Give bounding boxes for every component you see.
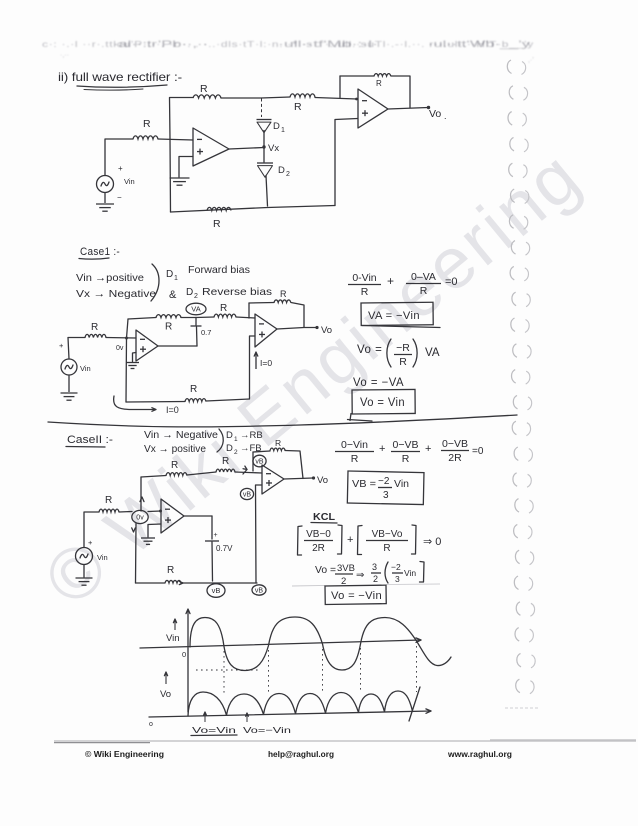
svg-text:+: + xyxy=(214,532,218,539)
svg-text:D: D xyxy=(226,430,233,441)
svg-text:·al··:tr’Pb··,··: ·al··:tr’Pb··,·· xyxy=(113,39,208,49)
resistor R (input, circuit 1) xyxy=(133,118,158,139)
node Vo (case 1) xyxy=(315,325,332,336)
source Vin (circuit 1) xyxy=(97,164,135,202)
op-amp U1 (case 2) xyxy=(161,499,184,533)
wire node to U1 inverting (case 2) xyxy=(148,510,162,513)
wire U2 output xyxy=(388,108,428,110)
svg-text:+: + xyxy=(88,538,93,547)
wire U2 output (case 1) xyxy=(277,328,316,330)
svg-text:3: 3 xyxy=(372,562,377,572)
svg-text:−: − xyxy=(117,193,122,202)
wire feedback right down to output (case 1) xyxy=(291,303,304,328)
wire U2 feedback top (case 1) xyxy=(249,302,274,305)
svg-text:2R: 2R xyxy=(312,543,325,554)
svg-text:−2: −2 xyxy=(391,562,401,572)
svg-text:→RB: →RB xyxy=(240,430,263,441)
wire input resistor to inverting node xyxy=(158,139,193,140)
resistor R (input, case 2) xyxy=(99,495,119,512)
svg-text:vB: vB xyxy=(255,588,264,595)
equation boxed VA = -Vin xyxy=(361,302,440,327)
wire top feedback left (case 2) xyxy=(141,476,166,478)
equation [VB-0/2R] + [VB-Vo/R] = 0 xyxy=(298,525,442,555)
source Vin (case 2) xyxy=(76,538,108,565)
svg-text:R: R xyxy=(376,79,382,88)
current annotation I=0 (bottom hook, case 1) xyxy=(114,396,179,415)
equation boxed VB = -2/3 Vin xyxy=(347,471,424,505)
resistor R (feedback U2, case 1) xyxy=(274,289,291,303)
svg-text:Vin: Vin xyxy=(166,633,180,644)
wire source to input resistor (case 1) xyxy=(68,338,85,360)
wire U2 feedback top (case 2) xyxy=(253,451,270,452)
ground (U1 + input, case 2) xyxy=(141,524,161,544)
node vB (top, case 2) xyxy=(253,455,266,467)
resistor R (feedback U1, case 2) xyxy=(166,460,187,476)
waveform vertical axis xyxy=(186,609,190,712)
svg-text:R: R xyxy=(275,438,281,448)
svg-text:3: 3 xyxy=(395,574,400,584)
svg-text:=0: =0 xyxy=(472,446,484,457)
svg-text:−2: −2 xyxy=(378,476,390,487)
equation boxed Vo = Vin xyxy=(348,389,416,421)
wire U2 feedback right down to output xyxy=(391,76,410,108)
node vB (mid, on + vertical, case 2) xyxy=(240,488,253,499)
svg-text:0-Vin: 0-Vin xyxy=(352,272,376,284)
label D1 forward bias xyxy=(166,264,250,282)
wire bottom rail (case 2) xyxy=(136,582,258,584)
resistor R (series to U2, case 2) xyxy=(216,456,235,472)
svg-text:,·’: ,·’ xyxy=(528,57,534,64)
label Vo=-Vin below axis xyxy=(243,713,291,735)
svg-text:R: R xyxy=(351,453,359,465)
svg-text:Vx: Vx xyxy=(268,143,279,154)
wire bottom rail (case 1) xyxy=(126,399,250,402)
wire left vertical to bottom rail with down arrow (case 2) xyxy=(132,524,136,584)
wire bottom rail to U2 non-inverting input xyxy=(335,119,358,206)
svg-text:R: R xyxy=(222,456,229,467)
svg-text:0−Vin: 0−Vin xyxy=(341,439,368,451)
svg-text:0.7V: 0.7V xyxy=(216,544,233,553)
svg-text:Vin: Vin xyxy=(404,568,416,578)
svg-text:D: D xyxy=(273,121,280,132)
svg-text:VB−Vo: VB−Vo xyxy=(372,529,403,540)
svg-text:0−VB: 0−VB xyxy=(442,438,468,450)
label Case1 heading xyxy=(79,246,120,259)
ground (U1 non-inverting input) xyxy=(170,157,194,186)
wire top feedback (case 1) xyxy=(128,318,156,320)
svg-text:R: R xyxy=(165,322,172,333)
op-amp U2 (case 1) xyxy=(255,314,277,347)
svg-text:www.raghul.org: www.raghul.org xyxy=(447,749,512,759)
svg-text:Reverse bias: Reverse bias xyxy=(202,286,272,298)
diode drop 0.7V element D2 branch (case 2) xyxy=(205,516,233,581)
svg-text:→FB: →FB xyxy=(240,443,262,454)
resistor R (bottom rail, case 2) xyxy=(165,565,183,585)
label Vo=Vin below axis xyxy=(191,712,237,736)
current annotation I=0 (U2 input, case 1) xyxy=(254,352,272,369)
wire feedback resistor to node VA xyxy=(181,317,196,319)
wire right vertical to U2 non-inverting (case 2) xyxy=(256,485,263,583)
svg-text:R: R xyxy=(280,289,287,299)
svg-text:+: + xyxy=(118,164,123,173)
wire U2 output (case 2) xyxy=(284,478,313,479)
node Vo (case 2) xyxy=(312,475,328,486)
wire top feedback xyxy=(170,97,193,99)
svg-text:vB: vB xyxy=(212,586,221,595)
svg-text:0v: 0v xyxy=(136,515,144,522)
annotation brace xyxy=(151,264,159,301)
svg-text:−R: −R xyxy=(396,342,410,354)
title: full wave rectifier xyxy=(58,70,182,90)
equation Vo = (-R/R) VA xyxy=(357,339,440,368)
wire inverting node vertical (feedback tie) xyxy=(170,98,171,213)
svg-text:+: + xyxy=(59,341,64,350)
svg-text:2R: 2R xyxy=(448,452,462,464)
diode D1 xyxy=(257,99,286,135)
svg-text:Vx → Negative: Vx → Negative xyxy=(76,288,156,300)
svg-text:⇒ 0: ⇒ 0 xyxy=(423,536,441,548)
op-amp U1 (circuit 1) xyxy=(193,128,229,166)
svg-text:1: 1 xyxy=(281,127,285,134)
wire U2 feedback vertical (case 1) xyxy=(248,303,250,318)
svg-text:R: R xyxy=(402,453,410,465)
svg-text:D: D xyxy=(226,443,233,454)
diode drop 0.7 element (case 1) xyxy=(191,318,212,347)
svg-text:.: . xyxy=(444,111,447,121)
label D2 FB xyxy=(226,443,262,456)
wire top continue to series resistor (case 1) xyxy=(196,316,214,319)
svg-text:Case1 :-: Case1 :- xyxy=(80,246,120,258)
resistor R (feedback U1, top wire) xyxy=(193,83,221,98)
wire U2 feedback vertical (case 2) xyxy=(252,452,254,471)
ground (below source, case 2) xyxy=(76,565,93,586)
op-amp U2 (case 2) xyxy=(262,465,284,494)
svg-text:=0: =0 xyxy=(445,276,458,288)
svg-text:R: R xyxy=(190,384,197,395)
resistor R (series to U2) xyxy=(290,94,315,113)
wire bottom rail (circuit 1) xyxy=(171,206,336,213)
svg-text:0v: 0v xyxy=(116,345,124,352)
resistor R (feedback U1 case 1) xyxy=(156,315,181,333)
waveform guide dotted verticals xyxy=(196,646,417,694)
svg-text:Vin: Vin xyxy=(394,478,409,490)
svg-text:Vo =: Vo = xyxy=(357,344,382,356)
svg-text:+: + xyxy=(425,443,431,455)
svg-text:I=0: I=0 xyxy=(166,405,179,415)
svg-text:VA: VA xyxy=(425,347,440,359)
label D2 reverse bias xyxy=(169,286,272,301)
svg-text:R: R xyxy=(361,286,369,298)
wire U2 feedback top xyxy=(340,75,374,77)
svg-text:R: R xyxy=(294,101,302,113)
svg-text:Vin: Vin xyxy=(97,553,108,562)
resistor R (feedback U2, case 2) xyxy=(270,438,285,451)
op-amp U2 (circuit 1) xyxy=(358,89,388,128)
svg-text:KCL: KCL xyxy=(313,511,336,523)
equation Vo = 3VB/2 = 3/2(-2/3 Vin) xyxy=(315,562,424,588)
svg-text:2: 2 xyxy=(234,449,238,456)
svg-text:Vx → positive: Vx → positive xyxy=(144,443,206,455)
source Vin (case 1) xyxy=(59,341,91,375)
wire source to input resistor (case 2) xyxy=(84,512,99,548)
svg-text:·,··: ·,·· xyxy=(60,52,69,59)
ground (U1 + input, case 1) xyxy=(126,353,139,369)
svg-text:Vo: Vo xyxy=(321,325,332,336)
svg-text:VA = −Vin: VA = −Vin xyxy=(368,310,420,322)
svg-text:&: & xyxy=(169,289,177,301)
svg-text:Vin: Vin xyxy=(124,177,135,186)
wire U2 non-inverting vertical (case 1) xyxy=(250,336,256,399)
svg-text:VB =: VB = xyxy=(352,478,376,490)
node Vx xyxy=(262,143,279,154)
svg-text:vB: vB xyxy=(255,459,264,466)
label D1 RB xyxy=(226,430,263,443)
resistor R (series to U2, case 1) xyxy=(214,303,236,317)
svg-text:R: R xyxy=(213,218,221,230)
svg-text:Vo = −Vin: Vo = −Vin xyxy=(331,590,382,602)
svg-text:I=0: I=0 xyxy=(260,358,272,368)
svg-text:© Wiki Engineering: © Wiki Engineering xyxy=(85,749,164,759)
svg-text:Vo = Vin: Vo = Vin xyxy=(360,397,405,409)
svg-text:R: R xyxy=(105,495,112,506)
svg-text:0–VA: 0–VA xyxy=(411,271,436,283)
svg-text:Vin →positive: Vin →positive xyxy=(76,272,144,284)
node vB (bottom right, case 2) xyxy=(252,585,266,595)
svg-text:0.7: 0.7 xyxy=(201,328,211,337)
svg-text:0−VB: 0−VB xyxy=(393,439,419,451)
svg-text:1: 1 xyxy=(234,436,238,443)
wire feedback right down to output (case 2) xyxy=(285,451,303,479)
wire input resistor to virtual ground node (case 2) xyxy=(119,511,132,514)
svg-text:vB: vB xyxy=(243,492,252,499)
svg-text:1: 1 xyxy=(174,275,178,282)
svg-text:D: D xyxy=(166,269,173,280)
svg-text:3VB: 3VB xyxy=(337,563,355,574)
wire D2 to bottom rail xyxy=(266,176,268,207)
wire series resistor to U2 inverting with arrow (case 2) xyxy=(235,466,262,474)
svg-text:o: o xyxy=(149,721,153,728)
svg-text:R: R xyxy=(200,83,208,95)
svg-text:2: 2 xyxy=(194,293,198,300)
waveform Vin horizontal axis xyxy=(140,638,421,659)
wire to inverting node (case 1) with 0v label xyxy=(106,337,136,353)
resistor R (input, case 1) xyxy=(85,322,106,338)
svg-text:·ul··tt‘Wb·__’y: ·ul··tt‘Wb·__’y xyxy=(428,39,531,49)
node 0v (circled, case 2) xyxy=(132,510,148,523)
op-amp U1 (case 1) xyxy=(136,330,158,361)
resistor R (feedback U2) xyxy=(374,74,391,88)
svg-text:R: R xyxy=(420,285,428,297)
section divider line xyxy=(48,415,517,427)
svg-text:CaseII :-: CaseII :- xyxy=(67,434,113,446)
wire between top resistors (case 2) xyxy=(187,472,216,475)
svg-text:R: R xyxy=(91,322,98,333)
wire top to D1 junction and on to series resistor xyxy=(221,97,290,98)
waveform Vo rectified humps xyxy=(188,691,413,716)
svg-text:+: + xyxy=(347,534,353,546)
svg-text:R: R xyxy=(143,118,151,130)
node vB (bottom left, case 2) xyxy=(207,584,225,598)
wire D1 to node Vx xyxy=(263,131,265,148)
svg-text:·ull··tf‘Mb·:·l·: ·ull··tf‘Mb·:·l· xyxy=(278,39,378,49)
label Vo axis xyxy=(160,672,171,700)
svg-text:⇒: ⇒ xyxy=(356,570,364,581)
resistor R (bottom rail, circuit 1) xyxy=(207,207,231,230)
node Vo (circuit 1 output) xyxy=(427,106,447,121)
label Vin axis xyxy=(166,619,180,644)
svg-text:D: D xyxy=(186,287,193,298)
svg-text:+: + xyxy=(379,443,385,455)
svg-text:R: R xyxy=(167,565,174,576)
ground (below source Vin, circuit 1) xyxy=(96,193,114,212)
ground (below source, case 1) xyxy=(61,375,78,400)
svg-text:Forward bias: Forward bias xyxy=(188,264,250,276)
waveform Vo horizontal axis xyxy=(149,709,431,728)
svg-text:Vo=Vin: Vo=Vin xyxy=(192,725,236,735)
svg-text:D: D xyxy=(278,165,285,176)
wire U1 output (case 1) xyxy=(158,345,197,347)
wire series resistor to U2 inverting (case 1) xyxy=(236,317,255,318)
svg-text:Vo=−Vin: Vo=−Vin xyxy=(243,725,291,735)
label KCL xyxy=(311,511,337,523)
svg-text:2: 2 xyxy=(286,171,290,178)
svg-text:ii) full wave rectifier :-: ii) full wave rectifier :- xyxy=(58,70,182,84)
equation 0-Vin/R + 0-VA/R = 0 xyxy=(348,271,458,298)
svg-text:Vin → Negative: Vin → Negative xyxy=(144,429,218,441)
wire source to input resistor xyxy=(105,139,133,176)
node VA (circled) xyxy=(186,303,206,315)
svg-text:R: R xyxy=(399,356,407,368)
svg-text:0: 0 xyxy=(182,650,186,659)
wire U2 feedback vertical left xyxy=(339,76,341,98)
svg-text:2: 2 xyxy=(373,574,378,584)
wire U1 output to node Vx xyxy=(229,148,264,150)
diode D2 xyxy=(257,147,290,178)
svg-text:Vo: Vo xyxy=(160,689,171,700)
wire left vertical inverting tie (case 1) xyxy=(126,319,128,402)
wire vertical to top feedback with up arrow (case 2) xyxy=(140,477,144,511)
svg-text:VA: VA xyxy=(191,305,200,314)
equation boxed Vo = -Vin xyxy=(292,584,440,604)
resistor R (bottom rail, case 1) xyxy=(185,384,206,402)
waveform Vin sine xyxy=(190,617,451,671)
svg-text:help@raghul.org: help@raghul.org xyxy=(268,749,334,759)
annotation brace (case 2) xyxy=(217,429,223,452)
svg-text:Vo: Vo xyxy=(429,108,441,120)
svg-text:3: 3 xyxy=(383,490,389,501)
svg-text:Vo = −VA: Vo = −VA xyxy=(353,377,404,389)
svg-text:R: R xyxy=(220,303,227,314)
svg-text:+: + xyxy=(387,274,394,288)
waveform slash mark on last hump xyxy=(409,687,420,721)
svg-text:R: R xyxy=(171,460,178,471)
svg-text:Vo: Vo xyxy=(317,475,328,486)
svg-text:VB−0: VB−0 xyxy=(306,529,331,540)
wire U1 output to D2 branch (case 2) xyxy=(184,515,212,517)
svg-text:R: R xyxy=(383,543,390,554)
svg-text:Vo =: Vo = xyxy=(315,565,336,576)
svg-text:Vin: Vin xyxy=(80,364,91,373)
label CaseII heading xyxy=(66,434,113,447)
equation 0-Vin/R + 0-VB/R + 0-VB/2R = 0 xyxy=(335,438,484,465)
wire series resistor to U2 inverting input xyxy=(315,98,358,101)
